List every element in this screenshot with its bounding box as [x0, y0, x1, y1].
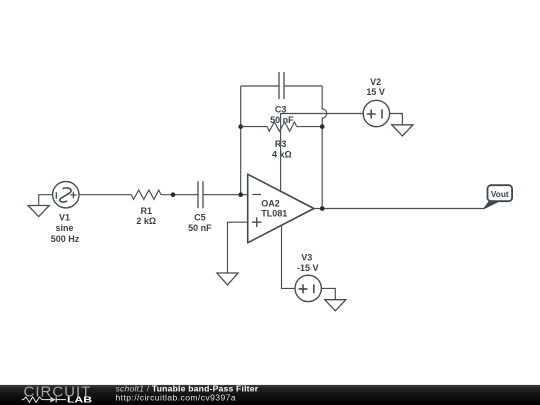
svg-text:R1: R1	[141, 206, 153, 216]
Vout flag box	[488, 185, 513, 201]
svg-text:500 Hz: 500 Hz	[51, 234, 80, 244]
svg-text:15 V: 15 V	[366, 87, 385, 97]
footer bar	[0, 385, 540, 405]
wire V2 to ground	[390, 114, 403, 125]
wire V1 to R1	[79, 194, 131, 196]
node dot (inverting input junction)	[238, 192, 243, 197]
svg-text:50 nF: 50 nF	[188, 223, 212, 233]
logo resistor zigzag	[22, 397, 51, 402]
wire top loop right	[284, 85, 322, 87]
svg-text:C5: C5	[194, 212, 206, 222]
svg-text:OA2: OA2	[261, 199, 280, 209]
left feedback wire (vertical)	[240, 86, 242, 195]
capacitor C3	[279, 72, 284, 99]
V- supply wire from op-amp bottom to V3	[282, 225, 296, 288]
wire C5 to op-amp inverting input	[203, 194, 248, 196]
node dot (left feedback / R3)	[238, 124, 243, 129]
wire top loop left	[241, 85, 279, 87]
voltage source V3	[295, 275, 321, 301]
svg-text:2 kΩ: 2 kΩ	[136, 216, 156, 226]
svg-text:4 kΩ: 4 kΩ	[272, 149, 292, 159]
output wire	[314, 208, 485, 210]
svg-text:V1: V1	[59, 213, 70, 223]
wire R3 row left	[241, 126, 267, 128]
ground GND3 (V3)	[325, 300, 346, 311]
op-amp plus symbol	[252, 217, 262, 227]
ground GND1 (left of V1)	[28, 195, 52, 217]
ground GND4 (op-amp + input)	[217, 222, 248, 285]
svg-text:TL081: TL081	[261, 209, 287, 219]
C5 labels	[188, 212, 212, 233]
node dot (R1/C5)	[171, 192, 176, 197]
resistor R3	[267, 122, 297, 131]
svg-text:sine: sine	[55, 223, 73, 233]
op-amp minus symbol	[252, 194, 261, 196]
resistor R1	[131, 190, 161, 199]
node dot (R3 right)	[320, 124, 325, 129]
V2 labels	[366, 77, 385, 97]
Vout flag pointer	[484, 201, 500, 209]
C3 labels	[270, 105, 294, 125]
voltage source V1 (sine)	[53, 182, 79, 208]
svg-text:Vout: Vout	[491, 189, 509, 199]
V+ supply wire from op-amp top to V2	[281, 114, 364, 192]
capacitor C5	[198, 181, 203, 208]
logo diode	[50, 397, 56, 403]
right feedback wire with hop over supply wire	[322, 86, 327, 209]
R1 labels	[136, 206, 156, 226]
wire R1 to C5	[161, 194, 198, 196]
op-amp labels	[261, 199, 287, 219]
op-amp OA2 body	[248, 174, 314, 243]
V1 labels	[51, 213, 80, 244]
svg-text:http://circuitlab.com/cv9397a: http://circuitlab.com/cv9397a	[116, 393, 237, 403]
svg-text:V3: V3	[301, 253, 312, 263]
ground GND2 (V2)	[392, 125, 413, 136]
node dot (output junction)	[320, 206, 325, 211]
svg-text:V2: V2	[370, 77, 381, 87]
R3 labels	[272, 139, 292, 159]
wire R3 row right	[297, 126, 323, 128]
voltage source V2	[363, 100, 389, 126]
svg-text:-15 V: -15 V	[297, 263, 319, 273]
wire V3 to ground	[321, 288, 335, 299]
svg-text:LAB: LAB	[67, 395, 92, 405]
V3 labels	[297, 253, 319, 274]
